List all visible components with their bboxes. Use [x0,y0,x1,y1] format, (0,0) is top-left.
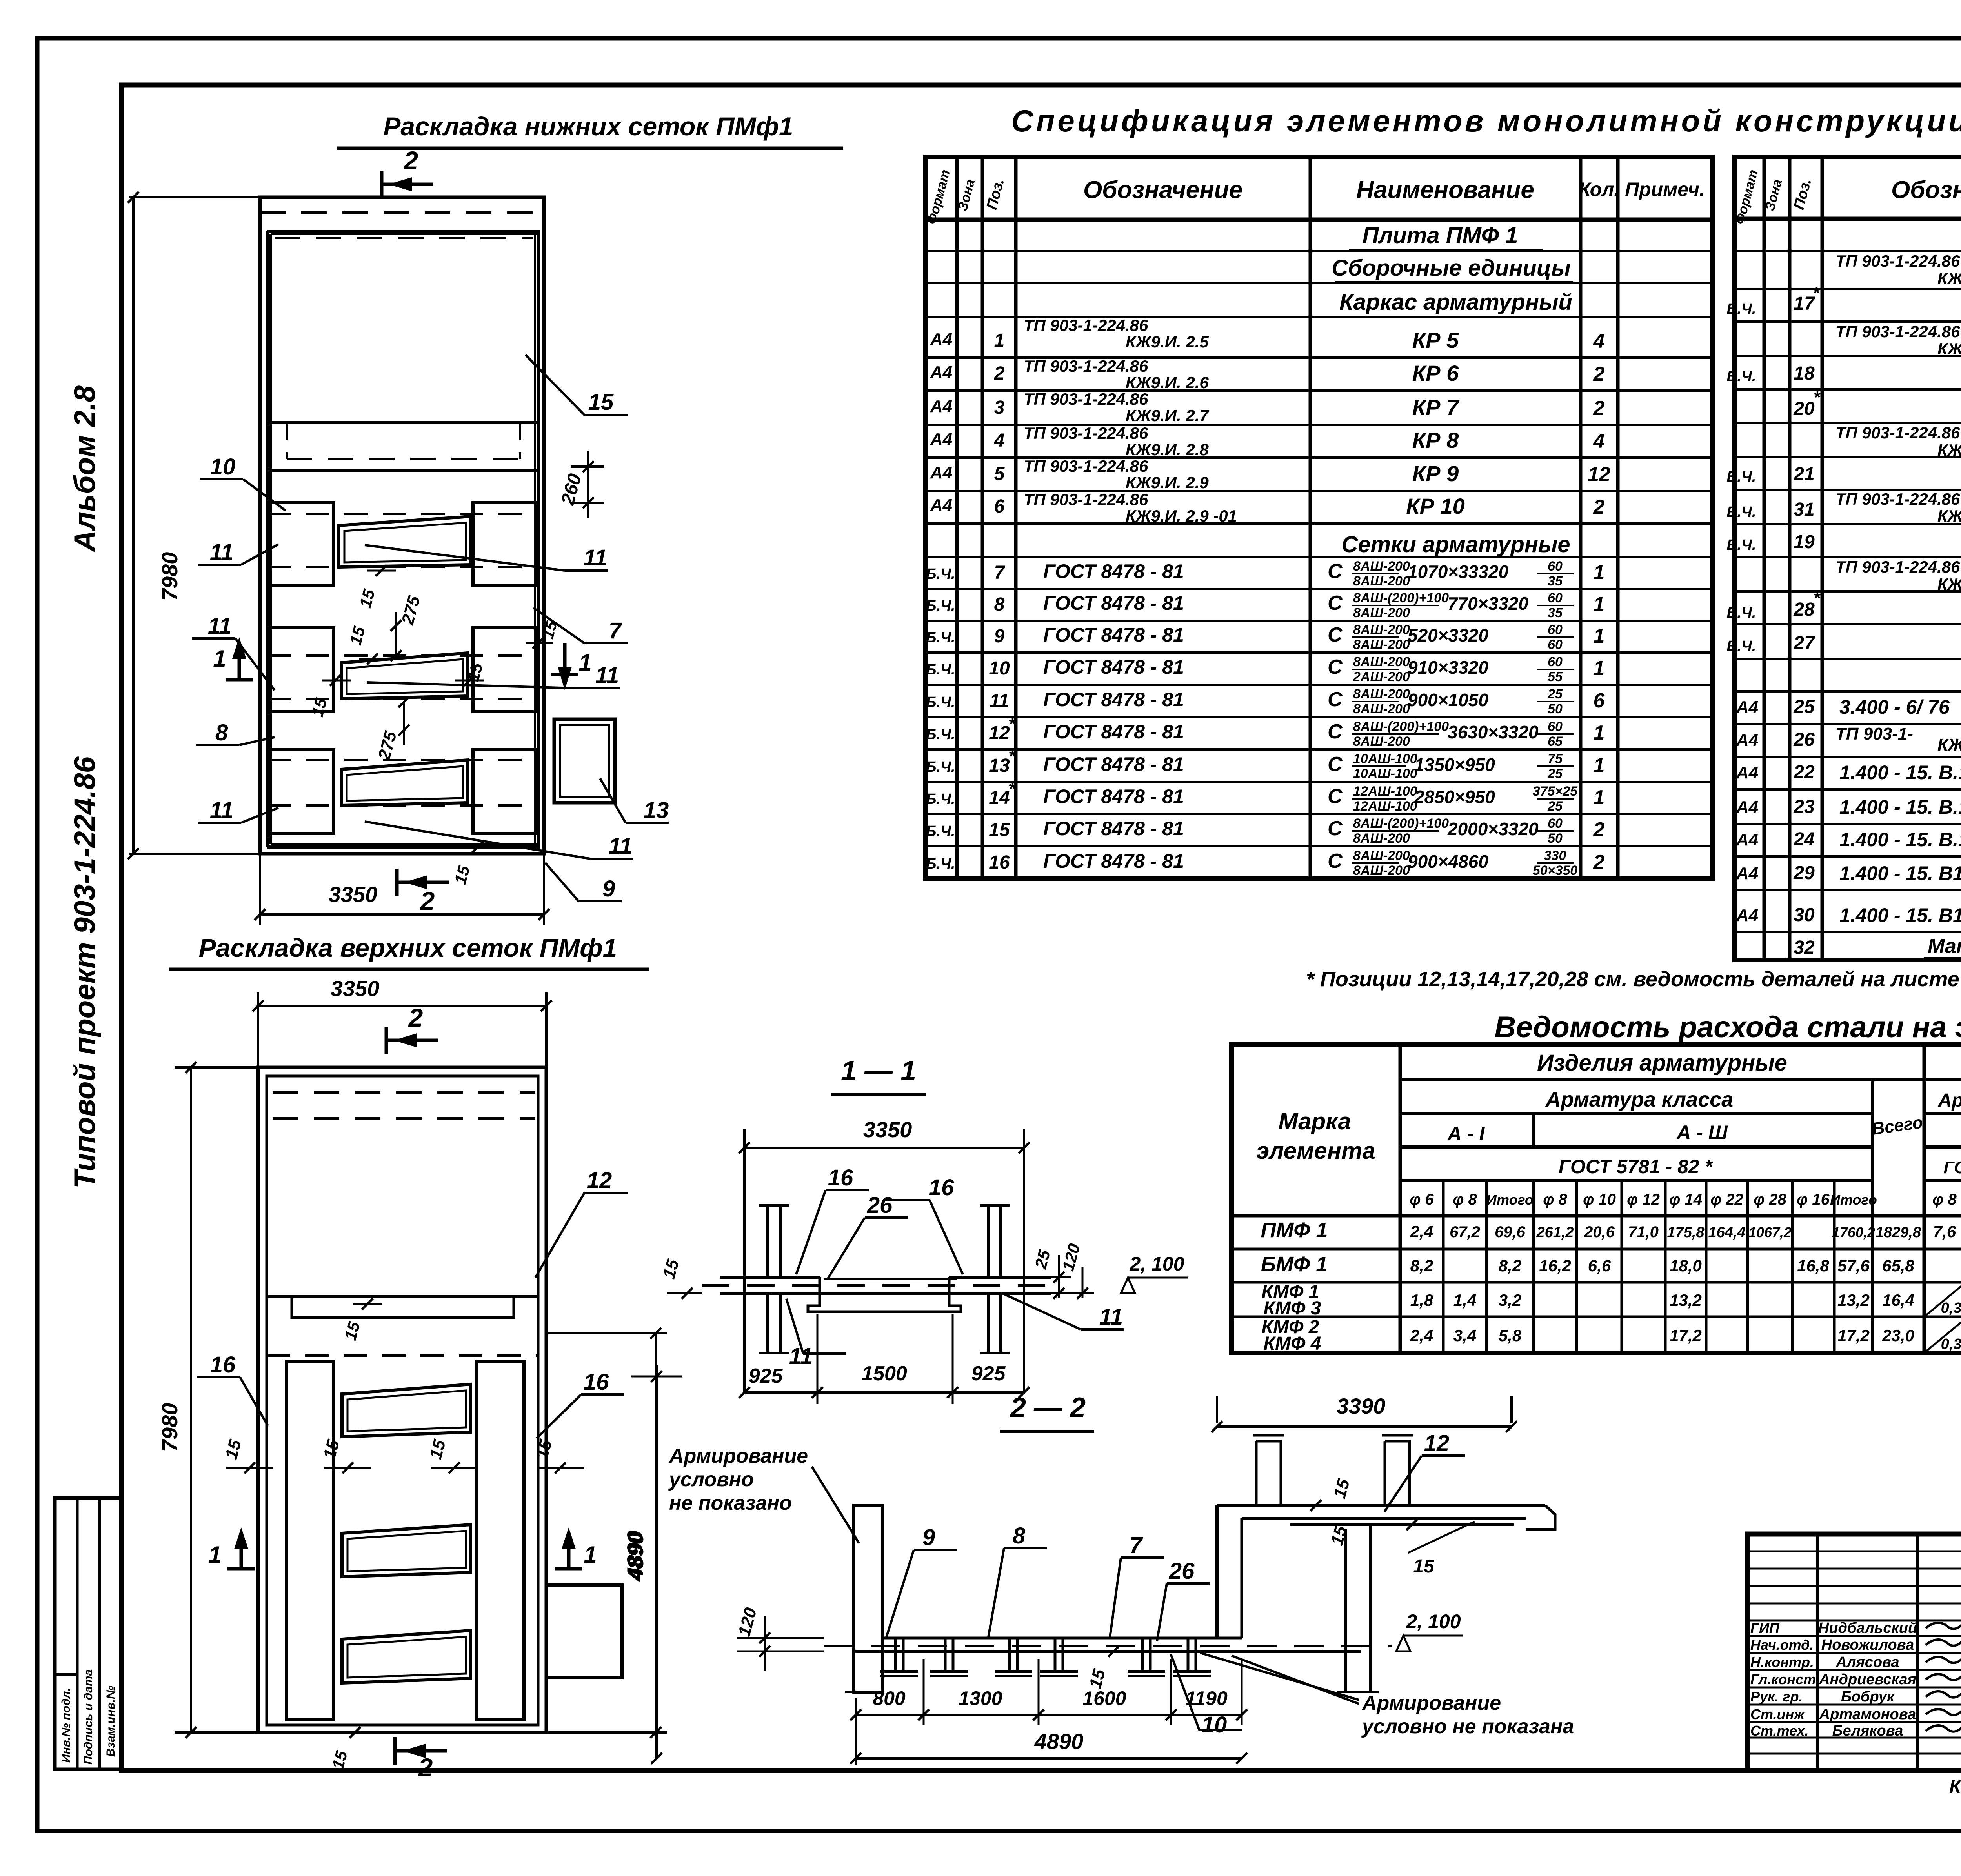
svg-text:*: * [1813,388,1821,407]
svg-text:14: 14 [989,787,1010,808]
svg-text:3350: 3350 [329,882,378,907]
plan2 strip left [286,1362,334,1720]
svg-text:3390: 3390 [1337,1394,1386,1418]
svg-text:1: 1 [1594,625,1605,647]
plan1 mesh group 1 [267,513,538,515]
svg-text:1300: 1300 [959,1687,1002,1709]
svg-text:Подпись и дата: Подпись и дата [82,1669,95,1765]
plan1 dim 7980 [132,197,135,854]
svg-text:11: 11 [609,833,632,859]
svg-text:3: 3 [994,397,1005,418]
sec2 label 9 [886,1550,914,1637]
svg-text:3350: 3350 [331,976,380,1001]
svg-text:18,0: 18,0 [1670,1256,1702,1275]
plan2 inner contour [267,1076,538,1725]
sec1 mid drop [808,1277,961,1312]
plan2 label 16 right [537,1394,581,1438]
svg-text:3,2: 3,2 [1499,1291,1521,1309]
plan2 dim 3350 top [258,1005,546,1007]
svg-text:А4: А4 [930,397,952,416]
svg-text:А4: А4 [1736,906,1758,925]
svg-text:А4: А4 [1736,864,1758,883]
svg-text:Плита ПМФ 1: Плита ПМФ 1 [1363,223,1518,248]
svg-text:5,8: 5,8 [1499,1326,1522,1345]
svg-text:ГОСТ 5781- 82 *: ГОСТ 5781- 82 * [1944,1158,1961,1177]
svg-text:А4: А4 [1736,698,1758,717]
plan1 label 11 a [241,544,278,565]
svg-text:8АШ-200: 8АШ-200 [1353,734,1410,749]
svg-text:ГОСТ 8478 - 81: ГОСТ 8478 - 81 [1043,689,1184,711]
sec1 slab [720,1276,820,1279]
svg-text:10АШ-100: 10АШ-100 [1353,751,1417,766]
svg-text:770×3320: 770×3320 [1448,593,1528,614]
svg-text:8АШ-200: 8АШ-200 [1353,687,1410,702]
svg-text:11: 11 [789,1343,813,1369]
sec2 I-beam at 2923 [1130,1637,1163,1639]
svg-text:КЖ9.И.ПМФ 1.3.1: КЖ9.И.ПМФ 1.3.1 [1937,269,1961,287]
svg-text:1.400 - 15. В.1. 160 - 32: 1.400 - 15. В.1. 160 - 32 [1839,762,1961,783]
svg-text:12АШ-100: 12АШ-100 [1353,784,1417,799]
svg-text:10: 10 [989,658,1010,679]
sec2 I-beam at 2584 [997,1637,1030,1639]
svg-text:φ 14: φ 14 [1669,1191,1702,1208]
svg-text:Ст.инж: Ст.инж [1750,1706,1805,1722]
svg-text:Наименование: Наименование [1356,176,1534,204]
svg-text:6,6: 6,6 [1588,1256,1611,1275]
plan1 label 11 d [367,682,577,688]
plan1 section mark 2 top [380,171,384,198]
svg-text:7980: 7980 [157,552,182,601]
svg-text:0,3: 0,3 [1941,1336,1961,1352]
svg-text:164,4: 164,4 [1708,1224,1745,1241]
svg-text:С: С [1328,817,1343,840]
svg-text:0,3: 0,3 [1941,1300,1961,1316]
svg-text:26: 26 [1169,1558,1195,1584]
plan2 mesh slant 2 [342,1525,471,1577]
svg-text:С: С [1328,850,1343,873]
svg-text:50: 50 [1548,702,1563,716]
svg-text:12: 12 [1588,463,1610,486]
plan1 lower band line [267,469,538,472]
svg-text:Материалы: Материалы [1928,935,1961,958]
sec2 left wall [854,1505,883,1692]
plan2 right step extension [546,1585,622,1678]
svg-text:1 — 1: 1 — 1 [841,1055,916,1087]
plan1 label 10 [243,479,286,511]
svg-text:24: 24 [1793,829,1814,850]
svg-text:12: 12 [587,1168,612,1193]
svg-text:13,2: 13,2 [1670,1291,1702,1309]
svg-text:φ 16: φ 16 [1797,1191,1830,1208]
sec2 label 26 [1157,1583,1167,1641]
svg-text:Сетки арматурные: Сетки арматурные [1341,532,1570,557]
svg-text:Раскладка верхних сеток ПМф1: Раскладка верхних сеток ПМф1 [199,933,617,962]
svg-text:9: 9 [994,626,1005,647]
svg-text:Армирование: Армирование [1361,1692,1501,1714]
svg-text:Новожилова: Новожилова [1821,1637,1914,1653]
svg-text:φ 22: φ 22 [1710,1191,1743,1208]
svg-text:ГОСТ 8478 - 81: ГОСТ 8478 - 81 [1043,721,1184,743]
svg-text:КМФ 4: КМФ 4 [1264,1333,1321,1354]
svg-text:А4: А4 [1736,830,1758,849]
svg-text:ГИП: ГИП [1750,1620,1780,1636]
spec table right grid [1735,157,1961,960]
svg-text:Ст.тех.: Ст.тех. [1750,1723,1809,1739]
svg-text:Нидбальский: Нидбальский [1818,1620,1917,1636]
svg-text:Арматура класса: Арматура класса [1545,1088,1733,1111]
sec2 right elevated slab [1217,1504,1545,1507]
svg-text:8: 8 [215,720,228,745]
svg-text:2: 2 [1593,818,1605,841]
svg-text:3350: 3350 [863,1117,912,1142]
sec1 right wall stub below [987,1293,990,1353]
svg-text:А - I: А - I [1447,1123,1485,1145]
plan2 opening band [267,1297,538,1318]
plan2 section mark 2 top [385,1027,388,1054]
svg-text:3.400 - 6/ 76: 3.400 - 6/ 76 [1839,696,1950,718]
svg-text:ТП 903-1-224.86: ТП 903-1-224.86 [1024,357,1148,375]
sec1 label 11 right [1004,1294,1081,1329]
svg-text:Сборочные единицы: Сборочные единицы [1332,255,1571,281]
svg-text:Б.Ч.: Б.Ч. [1727,537,1756,553]
svg-text:КЖ9.И. 2.8: КЖ9.И. 2.8 [1126,440,1209,459]
sec1 dim 15 left [667,1292,702,1294]
svg-text:А4: А4 [930,330,952,349]
svg-text:А4: А4 [930,463,952,482]
plan2 15 dims row [226,1467,273,1469]
svg-text:27: 27 [1793,633,1815,654]
svg-text:8АШ-200: 8АШ-200 [1353,559,1410,574]
plan1 dim 3350 [259,854,261,925]
svg-text:2, 100: 2, 100 [1129,1253,1184,1275]
svg-text:1: 1 [1594,754,1605,777]
plan1 small dim 15 group1 [376,565,387,576]
sec2 bottom dims [856,1714,1242,1716]
plan2 mesh slant 1 [342,1384,471,1437]
svg-text:А4: А4 [930,363,952,382]
plan2 section mark 1 left [227,1567,255,1571]
sec1 dim 25 120 right [1028,1276,1071,1278]
svg-text:Ведомость расхода стали: Ведомость расхода стали на элемент , кг [1494,1011,1961,1044]
svg-text:2: 2 [1593,397,1605,420]
svg-text:7,6: 7,6 [1933,1222,1956,1241]
sec1 label 16 left [796,1190,826,1274]
svg-text:КЖ9.И. 2.9: КЖ9.И. 2.9 [1126,473,1209,492]
svg-text:55: 55 [1548,669,1563,684]
svg-text:4890: 4890 [623,1532,648,1582]
svg-text:1: 1 [1594,593,1605,616]
svg-text:1: 1 [584,1542,597,1568]
svg-text:КР 5: КР 5 [1412,328,1459,353]
svg-text:φ 8: φ 8 [1453,1191,1477,1208]
svg-text:ГОСТ 8478 - 81: ГОСТ 8478 - 81 [1043,753,1184,775]
svg-text:18: 18 [1794,363,1815,384]
svg-text:16: 16 [989,852,1010,873]
sec2 label 8 [988,1548,1004,1637]
plan1 label 11 e [241,808,278,823]
svg-text:*: * [1008,746,1017,767]
svg-text:1: 1 [1594,786,1605,809]
sec2 label 10 [1171,1654,1199,1730]
plan1 small dim 275 group2 [395,612,397,656]
spec table left grid [926,157,1712,879]
svg-text:35: 35 [1548,574,1563,589]
sec1 bottom dims [744,1391,1024,1394]
svg-text:8АШ-200: 8АШ-200 [1353,654,1410,669]
plan1 label 11 b [365,545,565,571]
sec1 left wall stub below [766,1293,769,1353]
svg-text:КЖ9.И.ПМФ 1.3.3: КЖ9.И.ПМФ 1.3.3 [1937,441,1961,459]
svg-text:Изделия арматурные: Изделия арматурные [1537,1050,1787,1076]
svg-text:800: 800 [873,1687,906,1709]
svg-text:ТП 903-1-224.86: ТП 903-1-224.86 [1835,322,1960,341]
plan1 small dim 15 right group2 [464,675,475,686]
sec2 right wall below [1344,1529,1347,1692]
svg-text:Б.Ч.: Б.Ч. [926,791,955,807]
sec2 I-beam at 2700 [1042,1637,1075,1639]
svg-text:25: 25 [1547,799,1563,814]
svg-text:Инв.№ подл.: Инв.№ подл. [60,1688,73,1763]
svg-text:ТП 903-1-224.86: ТП 903-1-224.86 [1024,316,1148,334]
svg-text:7980: 7980 [157,1403,182,1452]
svg-text:8АШ-200: 8АШ-200 [1353,863,1410,878]
svg-text:А4: А4 [930,496,952,515]
svg-text:2АШ-200: 2АШ-200 [1353,669,1410,684]
svg-text:12: 12 [1424,1431,1450,1456]
svg-text:2: 2 [1593,363,1605,385]
svg-text:15: 15 [1413,1556,1435,1577]
svg-text:Марка: Марка [1278,1108,1351,1134]
svg-text:КЖ9.И.ПМФ 1.3.5: КЖ9.И.ПМФ 1.3.5 [1937,575,1961,593]
svg-text:*: * [1008,779,1017,800]
svg-text:Б.Ч.: Б.Ч. [1727,605,1756,621]
svg-text:13: 13 [989,755,1010,776]
svg-text:19: 19 [1794,532,1815,553]
svg-text:1: 1 [994,330,1005,351]
svg-text:1350×950: 1350×950 [1414,754,1495,775]
svg-text:ГОСТ 8478 - 81: ГОСТ 8478 - 81 [1043,850,1184,872]
svg-text:900×1050: 900×1050 [1408,690,1488,710]
svg-text:13: 13 [644,798,669,823]
svg-text:Итого: Итого [1486,1192,1534,1208]
svg-text:КЖ 9.Н. 1.3: КЖ 9.Н. 1.3 [1937,735,1961,754]
plan1 dim 260 [571,465,604,468]
svg-text:520×3320: 520×3320 [1408,625,1488,645]
plan1 label 8 [239,737,275,745]
svg-text:16,4: 16,4 [1882,1291,1914,1309]
svg-text:φ 10: φ 10 [1583,1191,1616,1208]
plan1 label 11 f [365,822,590,859]
svg-text:С: С [1328,656,1343,678]
svg-text:ГОСТ 8478 - 81: ГОСТ 8478 - 81 [1043,592,1184,614]
svg-text:17,2: 17,2 [1670,1326,1702,1345]
svg-text:69,6: 69,6 [1495,1223,1526,1241]
svg-text:32: 32 [1794,937,1815,958]
svg-text:8,2: 8,2 [1499,1256,1521,1275]
svg-text:Кол.: Кол. [1579,178,1619,200]
svg-text:8АШ-200: 8АШ-200 [1353,637,1410,652]
svg-text:КР 7: КР 7 [1412,395,1460,420]
svg-text:11: 11 [210,798,233,823]
svg-text:Копировал: Копировал [1949,1776,1961,1797]
svg-text:φ 8: φ 8 [1543,1191,1567,1208]
svg-text:8АШ-200: 8АШ-200 [1353,622,1410,637]
plan1 small plate pos13 [554,719,615,803]
svg-text:ГОСТ 8478 - 81: ГОСТ 8478 - 81 [1043,624,1184,646]
svg-text:условно не показана: условно не показана [1361,1715,1574,1738]
plan2 label 12 [535,1193,584,1278]
svg-text:1070×33320: 1070×33320 [1408,562,1509,582]
svg-text:175,8: 175,8 [1667,1224,1705,1241]
svg-text:Б.Ч.: Б.Ч. [926,856,955,872]
svg-text:25: 25 [1547,766,1563,781]
svg-text:2,4: 2,4 [1410,1326,1433,1345]
svg-text:Б.Ч.: Б.Ч. [926,726,955,743]
svg-text:71,0: 71,0 [1628,1223,1659,1241]
plan1 dashed opening [286,423,288,459]
svg-text:*: * [1813,589,1821,608]
plan2 mesh slant 3 [342,1631,471,1683]
svg-text:2,4: 2,4 [1410,1222,1433,1241]
sec2 elevation 2,100 [1396,1636,1410,1651]
svg-text:Б.Ч.: Б.Ч. [1727,504,1756,520]
svg-text:1760,2: 1760,2 [1832,1224,1875,1240]
svg-text:ТП 903-1-224.86: ТП 903-1-224.86 [1024,390,1148,408]
svg-text:Б.Ч.: Б.Ч. [926,759,955,775]
plan1 label 9 [545,863,578,901]
svg-text:10АШ-100: 10АШ-100 [1353,766,1417,781]
svg-text:Армирование: Армирование [668,1445,808,1467]
svg-text:ТП 903-1-224.86: ТП 903-1-224.86 [1835,424,1960,442]
plan1 section mark 2 bottom [395,869,399,896]
svg-text:13,2: 13,2 [1837,1291,1870,1309]
svg-text:910×3320: 910×3320 [1408,657,1488,678]
svg-text:Алясова: Алясова [1835,1654,1899,1671]
svg-text:925: 925 [971,1362,1006,1385]
svg-text:Нач.отд.: Нач.отд. [1750,1637,1814,1653]
svg-text:8АШ-(200)+100: 8АШ-(200)+100 [1353,719,1449,734]
svg-text:4890: 4890 [1034,1729,1084,1754]
svg-text:7: 7 [994,562,1006,583]
svg-text:БМФ 1: БМФ 1 [1261,1252,1328,1276]
svg-text:С: С [1328,560,1343,583]
svg-text:16,8: 16,8 [1797,1256,1829,1275]
plan1 inner sheet contour [267,230,540,233]
svg-text:57,6: 57,6 [1837,1256,1870,1275]
svg-text:ТП 903-1-224.86: ТП 903-1-224.86 [1835,252,1960,270]
svg-text:9: 9 [922,1525,935,1550]
svg-text:2, 100: 2, 100 [1406,1611,1461,1632]
svg-text:11: 11 [210,540,233,565]
sec1 right wall [987,1205,990,1277]
sec1 left wall [766,1205,769,1277]
svg-text:КЖ9.И. 2.6: КЖ9.И. 2.6 [1126,373,1209,392]
sec2 label 12 [1384,1456,1422,1512]
svg-text:16,2: 16,2 [1539,1256,1571,1275]
svg-text:330: 330 [1544,848,1566,863]
svg-text:А4: А4 [1736,798,1758,817]
plan1 small dim 15 right edge [533,638,544,649]
svg-text:8АШ-(200)+100: 8АШ-(200)+100 [1353,816,1449,831]
svg-text:1067,2: 1067,2 [1748,1224,1792,1240]
svg-text:1,8: 1,8 [1410,1291,1433,1309]
sec2 dim 4890 vertical [655,1365,658,1758]
svg-text:15: 15 [989,820,1010,840]
svg-text:1: 1 [213,645,226,672]
svg-text:50: 50 [1548,831,1563,846]
svg-text:Спецификация элементов мон: Спецификация элементов монолитной констр… [1011,104,1961,138]
plan2 dim 15 top-mid [362,1298,373,1309]
svg-text:ГОСТ 8478 - 81: ГОСТ 8478 - 81 [1043,656,1184,678]
svg-text:Взам.инв.№: Взам.инв.№ [104,1686,117,1757]
svg-text:4: 4 [994,430,1005,451]
svg-text:А4: А4 [1736,763,1758,782]
svg-text:22: 22 [1793,762,1815,783]
svg-text:С: С [1328,720,1343,743]
svg-text:2850×950: 2850×950 [1414,787,1495,807]
svg-text:КЖ9.И.ПМФ 1.3.4: КЖ9.И.ПМФ 1.3.4 [1937,507,1961,525]
svg-text:ГОСТ 8478 - 81: ГОСТ 8478 - 81 [1043,560,1184,582]
svg-text:КЖ9.И. 2.5: КЖ9.И. 2.5 [1126,333,1209,351]
sec1 label 16 right [930,1200,963,1274]
svg-text:φ 28: φ 28 [1754,1191,1787,1208]
svg-text:КР 6: КР 6 [1412,361,1459,385]
svg-text:ТП 903-1-224.86: ТП 903-1-224.86 [1024,457,1148,475]
svg-text:1: 1 [578,649,591,676]
svg-text:16: 16 [584,1369,609,1395]
svg-text:11: 11 [584,545,607,571]
sec2 I-beam at 2420 [933,1637,966,1639]
svg-text:КМФ 3: КМФ 3 [1264,1298,1321,1319]
svg-text:23: 23 [1793,796,1815,817]
svg-text:Б.Ч.: Б.Ч. [1727,368,1756,385]
svg-text:ГОСТ 8478 - 81: ГОСТ 8478 - 81 [1043,818,1184,840]
svg-text:Артамонова: Артамонова [1819,1706,1916,1723]
svg-text:Раскладка нижних сеток ПМф1: Раскладка нижних сеток ПМф1 [383,112,793,141]
svg-text:60: 60 [1548,559,1563,574]
svg-text:6: 6 [1594,689,1605,712]
sec2 dim 15 marks right [1310,1500,1321,1511]
svg-text:Типовой проект 903-1-224.86: Типовой проект 903-1-224.86 [68,756,102,1188]
svg-text:Рук. гр.: Рук. гр. [1750,1689,1803,1705]
svg-text:65: 65 [1548,734,1563,749]
svg-text:50×350: 50×350 [1533,863,1577,878]
svg-text:КЖ9.И. 2.7: КЖ9.И. 2.7 [1126,406,1209,425]
plan1 label 13 [600,778,626,823]
svg-text:φ 8: φ 8 [1932,1191,1957,1208]
svg-text:21: 21 [1793,464,1814,485]
plan2 outer contour [258,1067,546,1732]
svg-text:12АШ-100: 12АШ-100 [1353,799,1417,814]
svg-text:60: 60 [1548,637,1563,652]
sec2 dim 15 under slab [1108,1646,1119,1657]
plan2 dim 7980 [190,1067,192,1732]
svg-text:1: 1 [1594,657,1605,680]
plan2 top dashed lines [273,1091,535,1094]
svg-text:7: 7 [609,618,622,644]
plan2 label 16 left [240,1377,268,1426]
svg-text:Примеч.: Примеч. [1625,178,1705,200]
svg-text:* Позиции 12,13,14,17,20,28 с: * Позиции 12,13,14,17,20,28 см. ведомост… [1306,967,1961,991]
svg-text:60: 60 [1548,622,1563,637]
svg-text:1.400 - 15. В.1. 150 - 12: 1.400 - 15. В.1. 150 - 12 [1839,796,1961,818]
svg-text:11: 11 [208,613,231,639]
plan2 strip right [477,1362,524,1720]
plan1 label 15 [526,355,584,415]
svg-text:Обозначение: Обозначение [1891,176,1961,204]
svg-text:11: 11 [595,663,619,688]
svg-text:С: С [1328,688,1343,711]
